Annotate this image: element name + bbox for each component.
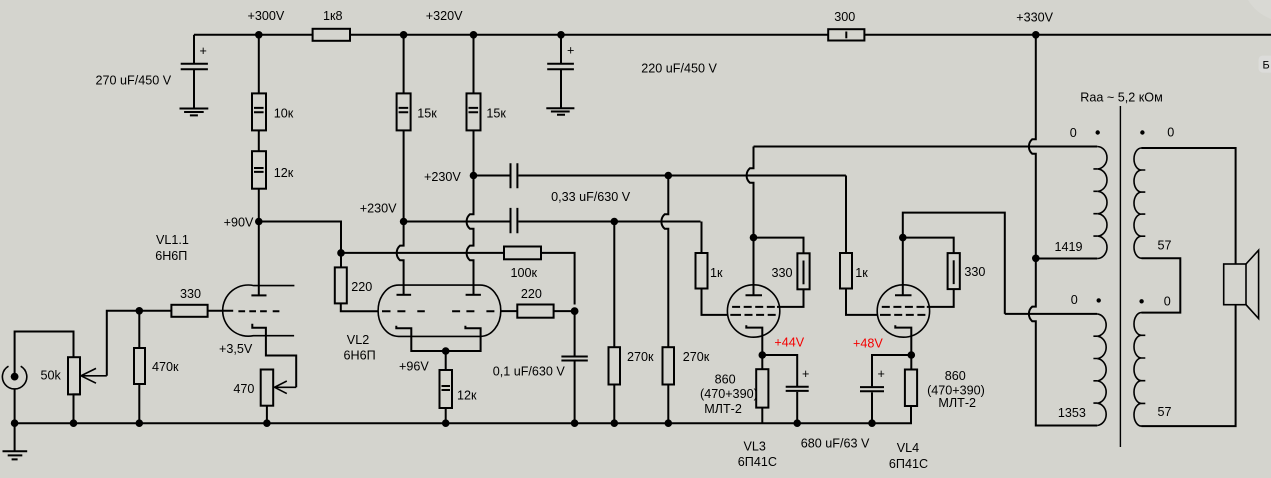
- UI artifact: translate tile with Б: [1259, 56, 1271, 73]
- VL2 left plate stem with hop over 100k wire: [397, 130, 404, 295]
- capacitor C 0,1uF/630V: [493, 311, 588, 423]
- VL2 right plate stem with hops: [467, 130, 474, 295]
- svg-text:1к: 1к: [855, 266, 868, 280]
- VL2 grids (dashed): [382, 310, 494, 312]
- VL3 control grid (dashed): [730, 314, 775, 316]
- node upper coupling output: [665, 172, 673, 180]
- wire jack sleeve to ground rail: [14, 389, 16, 423]
- node VL3 plate: [750, 234, 758, 242]
- wire secondary 3 top to speaker: [1142, 148, 1236, 264]
- svg-text:+300V: +300V: [248, 9, 285, 23]
- wire secondary 3 bottom to secondary 4 top: [1142, 258, 1181, 312]
- resistor R 300: [828, 10, 864, 41]
- svg-text:0: 0: [1164, 295, 1171, 309]
- node C2 tap: [557, 31, 565, 39]
- svg-text:680 uF/63 V: 680 uF/63 V: [801, 436, 870, 450]
- VL4 cathode: [895, 325, 911, 355]
- VL3 plate riser to OPT with hop over y=175.5: [747, 147, 754, 238]
- wire +90V to paraphase junction: [259, 222, 341, 253]
- svg-text:6Н6П: 6Н6П: [155, 249, 187, 263]
- svg-text:57: 57: [1158, 239, 1172, 253]
- svg-text:+3,5V: +3,5V: [219, 342, 253, 356]
- node rail 50k: [70, 419, 78, 427]
- svg-text:0: 0: [1070, 126, 1077, 140]
- resistor R 1к8: [313, 9, 350, 41]
- svg-text:470: 470: [233, 382, 254, 396]
- svg-text:+48V: +48V: [853, 337, 883, 351]
- node 220/100к junction: [571, 307, 579, 315]
- svg-text:(470+390): (470+390): [700, 387, 758, 401]
- node rail 12к VL2: [442, 419, 450, 427]
- VL3 cathode: [746, 325, 762, 355]
- VL3 screen grid (dashed): [732, 306, 775, 308]
- svg-text:0,1 uF/630 V: 0,1 uF/630 V: [493, 365, 566, 379]
- svg-text:860: 860: [715, 373, 736, 387]
- wire upper coupling row y=175.5: [474, 175, 846, 177]
- svg-text:15к: 15к: [417, 106, 437, 120]
- wire wiper to grid node: [107, 311, 140, 376]
- resistor R 12к (VL1 plate): [252, 130, 294, 221]
- svg-text:1353: 1353: [1058, 406, 1086, 420]
- VL4 plate stem and bar: [895, 238, 912, 296]
- VL2 left plate bar: [397, 294, 412, 296]
- VL1 cathode: [252, 324, 296, 388]
- svg-text:57: 57: [1158, 405, 1172, 419]
- svg-text:220 uF/450 V: 220 uF/450 V: [641, 62, 717, 76]
- node VL4 plate: [899, 234, 907, 242]
- svg-text:МЛТ-2: МЛТ-2: [704, 402, 742, 416]
- node rail jack: [11, 419, 19, 427]
- wire ground rail: [15, 406, 911, 423]
- tube VL3 6П41С envelope: [727, 285, 779, 337]
- resistor R 860 (470+390) МЛТ-2 VL3: [700, 355, 768, 423]
- svg-text:+230V: +230V: [424, 170, 461, 184]
- resistor R 12к (VL2 cathode): [440, 351, 478, 423]
- speaker BA1: [1224, 250, 1259, 318]
- svg-text:1419: 1419: [1055, 240, 1083, 254]
- capacitor C 0,33uF upper: [511, 163, 518, 188]
- node VL3 cathode: [759, 351, 767, 359]
- VL2 right plate bar: [466, 294, 481, 296]
- svg-text:6П41С: 6П41С: [889, 457, 928, 471]
- wire center tap down to primary 2 bottom: [1029, 258, 1097, 425]
- resistor R 860 (470+390) МЛТ-2 VL4: [905, 355, 985, 423]
- svg-text:+330V: +330V: [1016, 11, 1053, 25]
- tube VL4 6П41С envelope: [877, 285, 929, 337]
- svg-text:0,33 uF/630 V: 0,33 uF/630 V: [551, 190, 631, 204]
- node +230V right: [470, 172, 478, 180]
- node +330V: [1032, 31, 1040, 39]
- capacitor C 0,33uF lower: [511, 208, 518, 233]
- wire primary 1 bottom to center tap: [1036, 258, 1097, 260]
- svg-text:+230V: +230V: [360, 202, 397, 216]
- svg-text:330: 330: [964, 265, 985, 279]
- resistor R 470к: [134, 311, 179, 423]
- svg-text:+44V: +44V: [774, 336, 804, 350]
- tube VL1.1 6Н6П envelope: [223, 285, 295, 336]
- svg-text:1к: 1к: [710, 266, 723, 280]
- VL4 plate wire to OPT lower primary: [903, 213, 1005, 314]
- node OPT center tap: [1032, 254, 1040, 262]
- svg-text:270к: 270к: [627, 350, 654, 364]
- ground under C1: [180, 109, 209, 116]
- capacitor C2 220uF/450V: [547, 44, 717, 108]
- resistor R 330 (VL3 screen): [754, 238, 810, 307]
- ground at input jack: [3, 423, 28, 459]
- OPT secondary winding 4 (57): [1134, 295, 1172, 427]
- potentiometer R 50k: [41, 357, 81, 423]
- wire VL4 plate feed to primary 2 top: [1005, 313, 1097, 315]
- VL2 cathodes: [396, 326, 480, 351]
- svg-text:+: +: [878, 367, 885, 381]
- svg-text:VL2: VL2: [347, 333, 369, 347]
- svg-text:300: 300: [834, 10, 855, 24]
- node rail 270к left: [611, 419, 619, 427]
- node +230V left (VL2 left plate): [400, 218, 408, 226]
- UI artifact: light swoosh top right: [1248, 0, 1271, 19]
- svg-text:270 uF/450 V: 270 uF/450 V: [96, 74, 172, 88]
- wire jack pin to volume pot top: [15, 332, 74, 374]
- resistor R 1к (VL4 grid): [840, 176, 877, 315]
- svg-text:+: +: [200, 44, 207, 58]
- node VL1 grid: [136, 307, 144, 315]
- capacitor C 680uF/63V (VL4): [860, 355, 911, 423]
- wire drop to C1: [193, 35, 195, 63]
- svg-text:220: 220: [521, 287, 542, 301]
- svg-text:МЛТ-2: МЛТ-2: [938, 396, 976, 410]
- node +320V: [470, 31, 478, 39]
- svg-text:330: 330: [772, 266, 793, 280]
- wiper arrow 470: [275, 381, 297, 394]
- svg-text:Raa ~ 5,2 кОм: Raa ~ 5,2 кОм: [1080, 90, 1162, 104]
- svg-text:VL4: VL4: [897, 441, 919, 455]
- svg-text:0: 0: [1167, 126, 1174, 140]
- node VL2 cathode: [442, 347, 450, 355]
- svg-text:220: 220: [351, 280, 372, 294]
- OPT core: [1119, 106, 1121, 447]
- tube VL2 6Н6П envelope: [378, 285, 501, 336]
- svg-text:6Н6П: 6Н6П: [344, 349, 376, 363]
- svg-text:470к: 470к: [152, 360, 179, 374]
- resistor R 15к (right): [467, 35, 507, 131]
- node rail 680uF VL3: [793, 419, 801, 427]
- svg-text:330: 330: [180, 287, 201, 301]
- resistor R 270к (right) with hop over y=221.5: [661, 176, 709, 424]
- resistor R 330 (VL4 screen): [903, 238, 986, 307]
- svg-text:15к: 15к: [486, 106, 506, 120]
- svg-text:50k: 50k: [41, 369, 62, 383]
- wire top B+ rail: [194, 34, 1271, 36]
- svg-text:+320V: +320V: [426, 9, 463, 23]
- svg-text:10к: 10к: [274, 106, 294, 120]
- OPT primary winding 2 (1353): [1058, 293, 1106, 426]
- VL4 control grid (dashed): [880, 314, 925, 316]
- resistor R 100к (paraphase feedback): [341, 247, 575, 305]
- wiper arrow 50k: [81, 368, 107, 383]
- node after 1k8: [400, 31, 408, 39]
- ground under C2: [546, 108, 574, 114]
- wire +330V feed to OPT center tap (jogs over both plate wires): [1029, 35, 1036, 258]
- VL3 plate stem and bar: [746, 238, 763, 296]
- node rail 270к right: [665, 419, 673, 427]
- svg-text:+96V: +96V: [399, 359, 429, 373]
- svg-text:1к8: 1к8: [323, 9, 343, 23]
- wire lower coupling row y=221.5: [404, 221, 701, 223]
- VL4 screen grid (dashed): [882, 306, 925, 308]
- node rail 470к: [136, 419, 144, 427]
- resistor R 15к (left): [397, 35, 438, 131]
- capacitor C1 270uF/450V: [96, 44, 208, 108]
- svg-text:12к: 12к: [274, 166, 294, 180]
- svg-text:VL1.1: VL1.1: [156, 233, 189, 247]
- svg-text:12к: 12к: [457, 389, 477, 403]
- wire secondary 4 bottom to speaker: [1142, 305, 1236, 426]
- svg-text:100к: 100к: [511, 266, 538, 280]
- input jack XS1: [2, 366, 26, 389]
- potentiometer R 470 (cathode): [233, 370, 273, 424]
- node rail 470 pot: [263, 419, 271, 427]
- svg-text:Б: Б: [1263, 60, 1270, 72]
- node +300V: [255, 31, 263, 39]
- VL1 grid (dashed): [238, 310, 279, 312]
- resistor R 330 (grid stopper VL1): [139, 287, 233, 317]
- svg-text:6П41С: 6П41С: [738, 455, 777, 469]
- node +90V: [255, 218, 263, 226]
- node rail 0,1uF: [571, 419, 579, 427]
- node VL4 cathode: [908, 351, 916, 359]
- resistor R 220 (VL2 left grid): [335, 253, 379, 311]
- svg-text:860: 860: [945, 369, 966, 383]
- svg-text:+: +: [802, 367, 809, 381]
- resistor R 1к (VL3 grid): [696, 222, 728, 315]
- OPT secondary winding 3 (57): [1134, 126, 1174, 259]
- resistor R 220 (VL2 right grid): [501, 287, 575, 318]
- svg-text:+: +: [567, 44, 574, 58]
- wire VL3 plate to OPT primary 1 top: [754, 146, 1098, 148]
- OPT primary winding 1 (1419): [1055, 126, 1107, 258]
- capacitor C 680uF/63V (VL3): [762, 355, 870, 450]
- svg-text:+90V: +90V: [224, 216, 254, 230]
- node lower coupling output: [611, 218, 619, 226]
- svg-text:0: 0: [1071, 293, 1078, 307]
- resistor R 10к: [252, 35, 294, 131]
- svg-text:VL3: VL3: [744, 440, 766, 454]
- VL1 plate: [251, 222, 266, 296]
- wire drop to C2: [560, 35, 562, 63]
- node paraphase junction: [337, 249, 345, 257]
- node rail 680uF VL4: [868, 419, 876, 427]
- svg-text:270к: 270к: [683, 350, 710, 364]
- resistor R 270к (left): [609, 222, 655, 424]
